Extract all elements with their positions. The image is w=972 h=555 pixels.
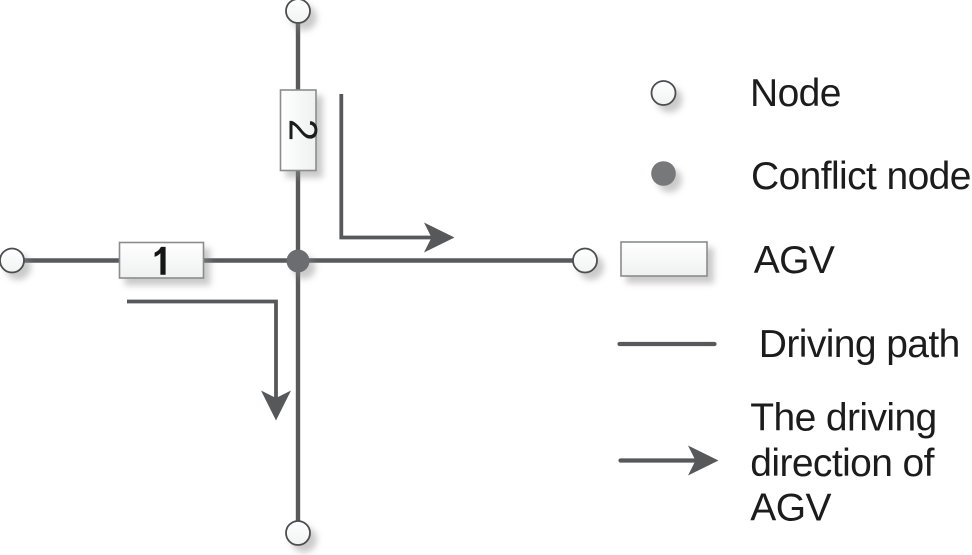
svg-text:2: 2 <box>281 119 325 141</box>
svg-text:AGV: AGV <box>754 239 835 282</box>
svg-text:Node: Node <box>750 72 841 115</box>
svg-text:AGV: AGV <box>750 487 831 530</box>
svg-text:direction of: direction of <box>750 442 934 485</box>
svg-text:Conflict node: Conflict node <box>751 155 971 198</box>
svg-text:Driving path: Driving path <box>759 323 960 366</box>
svg-text:The driving: The driving <box>750 397 936 440</box>
